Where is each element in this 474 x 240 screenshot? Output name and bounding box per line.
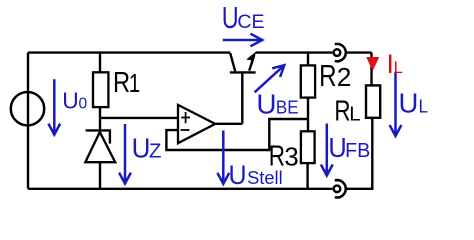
zener diode hook xyxy=(109,130,111,143)
transistor Q1 collector xyxy=(230,53,235,71)
wire op-amp output xyxy=(215,123,242,125)
wire bottom rail right of terminal xyxy=(346,188,374,190)
svg-text:L: L xyxy=(349,104,360,126)
svg-text:FB: FB xyxy=(345,140,370,162)
resistor R2 xyxy=(301,65,315,97)
wire transistor base drop xyxy=(241,73,243,124)
wire op-amp noninverting input xyxy=(100,117,178,119)
resistor RL xyxy=(366,85,380,117)
svg-text:CE: CE xyxy=(237,11,264,33)
op-amp minus sign xyxy=(181,129,190,131)
zener diode cathode bar xyxy=(86,129,111,131)
wire R2 to R3 xyxy=(307,98,309,132)
svg-text:L: L xyxy=(394,58,403,77)
wire R2 top branch xyxy=(307,53,309,66)
wire bottom rail xyxy=(28,188,332,190)
svg-text:U: U xyxy=(399,88,419,119)
voltage arrow UFB xyxy=(321,124,333,176)
voltage arrow UBE xyxy=(255,65,285,92)
svg-text:U: U xyxy=(256,88,276,119)
svg-text:2: 2 xyxy=(337,62,352,92)
wire R3 to bottom rail xyxy=(306,163,308,189)
wire top rail right (emitter to terminal) xyxy=(256,51,332,53)
svg-text:R: R xyxy=(319,58,336,92)
output terminal bottom xyxy=(334,180,346,197)
svg-text:1: 1 xyxy=(129,69,140,98)
voltage arrow UZ xyxy=(119,124,131,184)
wire R1 to zener xyxy=(99,107,101,132)
resistor R1 xyxy=(93,72,108,107)
svg-text:L: L xyxy=(419,96,429,117)
resistor R3 xyxy=(301,131,315,163)
svg-text:R: R xyxy=(113,66,130,99)
wire op-amp inverting input feedback loop xyxy=(166,119,308,150)
voltage arrow UCE xyxy=(223,34,262,47)
voltage source circle xyxy=(11,92,44,125)
svg-text:Z: Z xyxy=(149,140,162,163)
output terminal top xyxy=(334,44,346,61)
transistor Q1 emitter arrowhead xyxy=(247,52,255,63)
voltage arrow UL xyxy=(390,72,402,136)
op-amp U1 triangle xyxy=(178,105,215,143)
svg-text:BE: BE xyxy=(276,97,299,118)
transistor Q1 emitter xyxy=(249,55,254,71)
zener diode triangle xyxy=(85,132,115,162)
wire zener to bottom rail xyxy=(99,162,101,189)
svg-text:R: R xyxy=(269,141,285,172)
voltage arrow U0 xyxy=(48,79,60,134)
svg-text:U: U xyxy=(62,88,78,114)
svg-text:U: U xyxy=(222,0,239,35)
op-amp plus sign xyxy=(181,112,190,123)
wire left vertical xyxy=(27,53,29,189)
wire right drop to RL xyxy=(370,53,372,86)
svg-text:U: U xyxy=(328,132,346,163)
wire top rail left xyxy=(28,51,230,53)
svg-text:0: 0 xyxy=(79,96,88,113)
wire RL bottom down xyxy=(371,118,373,189)
svg-text:U: U xyxy=(132,133,151,164)
wire R1 top branch xyxy=(99,53,101,73)
transistor Q1 base bar xyxy=(230,71,256,73)
svg-text:U: U xyxy=(229,161,247,190)
current arrow IL red xyxy=(366,57,379,71)
wire top rail after terminal xyxy=(346,51,372,53)
svg-text:3: 3 xyxy=(284,144,298,172)
voltage arrow UStell xyxy=(217,131,229,184)
svg-text:R: R xyxy=(334,96,350,127)
